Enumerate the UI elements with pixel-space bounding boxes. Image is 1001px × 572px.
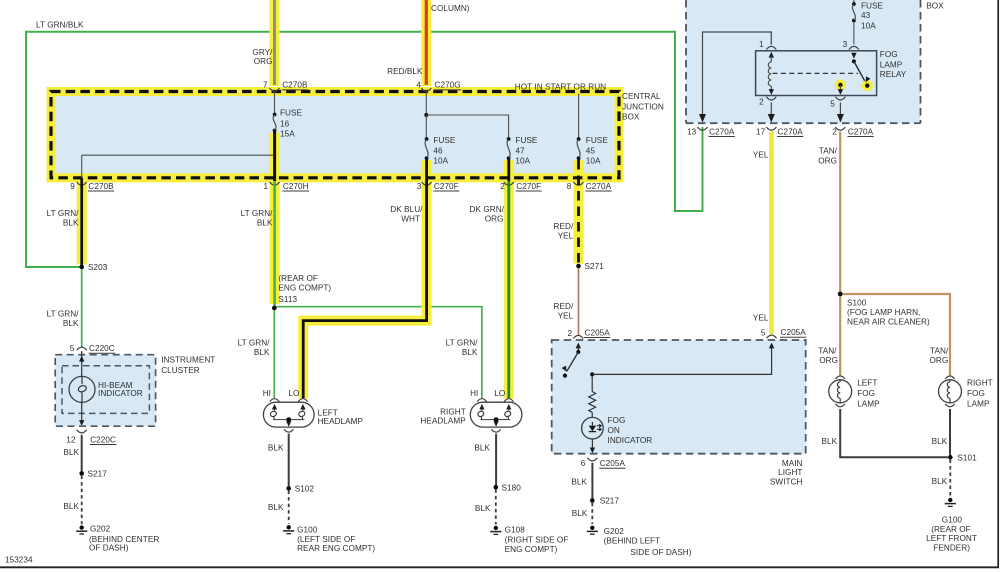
wire S217 to G202 dashed [81,476,83,525]
LED fog on indicator [582,417,604,439]
svg-text:C270F: C270F [434,182,459,191]
svg-text:FOG: FOG [857,389,875,398]
svg-text:5: 5 [761,329,766,338]
connector C205A pin5 [767,335,777,338]
svg-text:G202: G202 [90,525,111,534]
svg-text:C270G: C270G [435,81,461,90]
svg-text:153234: 153234 [5,555,33,564]
svg-text:REAR ENG COMPT): REAR ENG COMPT) [297,544,375,553]
svg-text:RED/BLK: RED/BLK [387,67,423,76]
svg-text:LIGHT: LIGHT [778,468,802,477]
svg-text:YEL: YEL [753,150,769,159]
svg-text:10A: 10A [515,157,530,166]
highlight: DK GRN/ORG path to right headlamp LO [504,160,514,399]
svg-text:HOT IN START OR RUN: HOT IN START OR RUN [515,82,606,91]
svg-text:S203: S203 [88,263,108,272]
wire RED/BLK top [425,0,428,85]
node S113 [272,306,277,311]
svg-text:46: 46 [433,147,443,156]
svg-text:LT GRN/: LT GRN/ [47,310,80,319]
svg-text:LO: LO [494,389,505,398]
svg-text:1: 1 [263,182,268,191]
svg-text:S271: S271 [585,262,605,271]
svg-text:FOG: FOG [967,389,985,398]
svg-text:BLK: BLK [474,444,490,453]
svg-text:RED/: RED/ [554,222,574,231]
node switch output [590,372,594,376]
wire S271 to C205A pin2 [578,268,580,335]
svg-text:ORG: ORG [485,215,504,224]
highlight: RED/BLK wire [421,0,431,86]
wire relay pin1 to C270A pin13 [703,32,772,117]
svg-text:4: 4 [416,81,421,90]
svg-text:BLK: BLK [475,504,491,513]
svg-text:5: 5 [830,100,835,109]
wire DK BLU/WHT C270F pin3 to left headlamp LO [303,160,426,398]
wire S180 to G108 dashed [495,489,497,524]
connector C270G pin4 [421,88,431,91]
connector C270B pin7 [270,88,280,91]
wire junction to fuse47 [426,115,508,137]
wire pin4 to junction [425,91,427,115]
right fog lamp [945,376,954,379]
main light switch box border [552,340,806,454]
ground G100 (left side of rear eng compt) [287,525,291,529]
svg-text:10A: 10A [586,157,601,166]
svg-text:LT GRN/: LT GRN/ [47,209,80,218]
svg-text:SIDE OF DASH): SIDE OF DASH) [630,548,691,557]
svg-text:TAN/: TAN/ [930,346,949,355]
svg-text:BOX: BOX [622,113,640,122]
svg-text:BLK: BLK [64,448,80,457]
svg-text:G202: G202 [604,527,625,536]
svg-text:17: 17 [756,127,766,136]
wire fuse16 to C270H pin1 (thick) [273,132,276,181]
svg-text:2: 2 [832,127,837,136]
wire left fog lamp to S101 [840,409,948,457]
ground G100 (rear of left front fender) [948,498,952,502]
svg-text:TAN/: TAN/ [819,147,838,156]
svg-text:HEADLAMP: HEADLAMP [420,416,466,425]
relay pin2 [766,97,776,100]
wire S101 to G100 dashed [949,460,951,498]
svg-text:BLK: BLK [822,437,838,446]
svg-text:LT GRN/: LT GRN/ [238,339,271,348]
svg-text:JUNCTION: JUNCTION [622,103,664,112]
connector C270A pin17 [766,127,776,130]
svg-text:HI: HI [470,389,478,398]
svg-text:ORG: ORG [818,156,837,165]
svg-text:YEL: YEL [558,312,574,321]
connector C270B pin9 [77,182,87,185]
svg-text:NEAR AIR CLEANER): NEAR AIR CLEANER) [847,318,930,327]
connector C270F pin2 [504,182,514,185]
svg-text:RIGHT: RIGHT [967,379,993,388]
svg-text:RED/: RED/ [554,302,574,311]
svg-text:(LEFT SIDE OF: (LEFT SIDE OF [297,535,355,544]
svg-text:LAMP: LAMP [880,61,903,70]
wire LT GRN/BLK: S203 loop to C270A pin13 [26,32,703,267]
svg-text:LO: LO [288,389,299,398]
svg-text:LT GRN/: LT GRN/ [446,339,479,348]
svg-text:FOG: FOG [880,50,898,59]
svg-text:FUSE: FUSE [280,109,303,118]
svg-text:RIGHT: RIGHT [440,407,466,416]
relay pin5 [835,97,845,100]
svg-text:LAMP: LAMP [857,399,880,408]
svg-text:3: 3 [417,182,422,191]
svg-text:MAIN: MAIN [782,459,803,468]
svg-text:CENTRAL: CENTRAL [622,92,661,101]
resistor (indicator dropping) [591,376,593,392]
svg-text:FUSE: FUSE [433,136,456,145]
svg-text:INDICATOR: INDICATOR [608,436,653,445]
connector C205A pin6 [587,458,597,461]
node relay common [852,59,856,63]
wire top bus to fuse45 [578,94,580,138]
ground G108 (right side of eng compt) [494,526,498,530]
svg-text:43: 43 [861,11,871,20]
wire YEL C270A pin17 to C205A pin5 [769,132,774,335]
svg-text:G100: G100 [942,516,963,525]
relay pin3 [849,46,859,49]
svg-text:S102: S102 [295,485,315,494]
wire S113 to left headlamp HI [273,310,275,398]
svg-text:10A: 10A [861,22,876,31]
svg-text:FOG: FOG [608,416,626,425]
svg-text:ORG: ORG [254,57,273,66]
svg-text:(FOG LAMP HARN,: (FOG LAMP HARN, [847,308,920,317]
wire pin12 to S217 [81,435,83,471]
svg-text:5: 5 [70,344,75,353]
svg-text:BLK: BLK [572,509,588,518]
svg-text:2: 2 [759,98,764,107]
svg-text:HEADLAMP: HEADLAMP [318,417,364,426]
svg-text:LAMP: LAMP [967,399,990,408]
wire S113 to right headlamp HI [274,307,482,399]
wire bulb to pin12 [81,402,83,420]
node junction fuse feed [424,113,428,117]
svg-text:2: 2 [567,329,572,338]
switch arm assembly [576,343,581,349]
svg-text:15A: 15A [280,129,295,138]
svg-text:C270A: C270A [848,127,874,136]
hi-beam indicator bulb [69,376,95,402]
wire branch to pin9 [82,154,274,156]
node S180 [494,485,499,490]
svg-text:9: 9 [70,182,75,191]
svg-text:DK BLU/: DK BLU/ [390,205,423,214]
connector C205A pin2 [573,335,583,338]
relay K: fog lamp relay box [756,51,877,96]
svg-text:G100: G100 [297,526,318,535]
svg-text:(REAR OF: (REAR OF [278,274,318,283]
svg-text:C220C: C220C [90,435,116,444]
wire left headlamp to S102 [288,434,290,487]
svg-text:LEFT: LEFT [857,379,877,388]
fuse F45 10A [577,137,581,141]
node relay NO contact [865,83,869,87]
node relay pin5 contact [838,83,842,87]
svg-text:LEFT FRONT: LEFT FRONT [926,534,977,543]
svg-text:OF DASH): OF DASH) [89,544,129,553]
svg-text:C205A: C205A [585,328,611,337]
svg-text:2: 2 [500,182,505,191]
svg-text:SWITCH: SWITCH [770,478,803,487]
svg-text:S217: S217 [600,497,620,506]
node S217 (switch side) [590,498,595,503]
svg-text:C270F: C270F [516,182,541,191]
instrument cluster outer box [55,355,155,427]
wire switch output to C205A pin5 [592,348,771,374]
svg-text:INSTRUMENT: INSTRUMENT [161,355,215,364]
page bottom border [0,566,999,568]
svg-text:ORG: ORG [819,356,838,365]
svg-text:YEL: YEL [753,314,769,323]
wire S203 to C220C pin5 [81,269,83,347]
node S271 [576,264,581,269]
highlight: pin9 wire to S203 [77,177,87,265]
svg-text:7: 7 [263,81,268,90]
wire C205A pin6 to S217 [591,463,593,499]
wire C270H pin1 to S113 (green core) [273,181,276,306]
svg-text:LT GRN/: LT GRN/ [241,209,274,218]
svg-text:ENG COMPT): ENG COMPT) [278,284,331,293]
wire junction to fuse46 [425,115,427,137]
svg-text:TAN/: TAN/ [818,346,837,355]
fuse F43 10A [853,0,855,3]
highlight: relay contact halo switch [862,80,873,91]
svg-text:YEL: YEL [558,232,574,241]
wire TAN/ORG C270A pin2 to S100 [839,132,841,293]
svg-text:BLK: BLK [932,437,948,446]
svg-text:FUSE: FUSE [861,1,884,10]
wire S100 to left fog lamp [839,296,841,375]
wire relay pin2 to C270A pin17 [770,103,772,118]
svg-text:1: 1 [759,40,764,49]
svg-text:S217: S217 [88,470,108,479]
svg-text:C220C: C220C [89,344,115,353]
svg-text:S180: S180 [502,484,522,493]
ground G202 (behind left side of dash) [590,526,594,530]
svg-text:C205A: C205A [781,328,807,337]
wire pin9 to S203 (blk core on highlight) [80,178,83,265]
svg-text:(REAR OF: (REAR OF [931,525,971,534]
wire RED/YEL dashed C270A pin8 to S271 [577,160,580,264]
svg-text:S113: S113 [278,295,297,304]
connector C270A pin13 [698,127,708,130]
wire S217 to G202 dashed [591,503,593,524]
svg-text:3: 3 [843,40,848,49]
instrument cluster inner box [62,366,149,414]
fuse F16 15A [273,113,277,117]
svg-text:WHT: WHT [401,215,420,224]
left headlamp [263,402,314,427]
svg-text:8: 8 [567,182,572,191]
relay switch blade [854,61,865,80]
wire GRY/ORG top [273,0,276,85]
wire fuse43 to relay pin3 [853,22,855,45]
svg-text:BLK: BLK [254,348,270,357]
svg-text:BLK: BLK [268,444,284,453]
highlight: relay contact halo pin5 [835,79,846,90]
connector C270A pin8 [574,182,584,185]
svg-text:BLK: BLK [63,319,79,328]
svg-text:RELAY: RELAY [880,70,907,79]
highlight: DK BLU/WHT path to left headlamp LO [303,160,426,399]
svg-text:DK GRN/: DK GRN/ [470,205,505,214]
wire right fog lamp to S101 [949,409,951,455]
relay mechanical link dashed [773,72,859,74]
svg-text:45: 45 [586,147,596,156]
svg-text:C270B: C270B [88,182,114,191]
svg-text:BLK: BLK [462,348,478,357]
wire pin5 contact down [839,85,841,89]
connector C270A pin2 [835,127,845,130]
central junction box border [51,92,619,178]
svg-text:C270B: C270B [282,81,308,90]
svg-text:BLK: BLK [63,218,79,227]
svg-text:C270A: C270A [586,182,612,191]
svg-text:ON: ON [608,426,620,435]
svg-text:16: 16 [280,119,290,128]
wire S100 to right fog lamp [843,294,951,376]
svg-text:LEFT: LEFT [318,408,338,417]
svg-text:(RIGHT SIDE OF: (RIGHT SIDE OF [505,535,569,544]
svg-text:(BEHIND LEFT: (BEHIND LEFT [604,536,661,545]
central junction box fill [51,92,619,178]
node S101 [948,455,953,460]
page right border [997,0,999,568]
svg-text:LT GRN/BLK: LT GRN/BLK [36,21,84,30]
svg-text:S101: S101 [957,454,977,463]
svg-text:BLK: BLK [571,478,587,487]
highlight: central junction box border [51,92,619,178]
svg-text:ORG: ORG [929,356,948,365]
svg-text:FENDER): FENDER) [933,544,970,553]
wire relay pin5 to C270A pin2 [839,103,841,118]
left fog lamp [836,376,845,379]
wire DK GRN/ORG C270F pin2 to right headlamp LO [507,160,510,182]
highlight: GRY/ORG wire [270,0,280,86]
wire pin7 to fuse16 [274,91,276,113]
svg-text:BLK: BLK [268,503,284,512]
relay coil [769,52,774,58]
svg-text:BOX: BOX [926,2,944,11]
svg-text:COLUMN): COLUMN) [431,4,470,13]
svg-text:HI: HI [263,389,271,398]
relay pin1 [766,46,776,49]
svg-text:GRY/: GRY/ [252,48,273,57]
node S217 (cluster side) [79,471,84,476]
node S100 [838,292,843,297]
svg-text:C270A: C270A [709,127,735,136]
connector C220C pin5 [77,347,87,350]
connector C270F pin3 [422,182,432,185]
node S102 [286,486,291,491]
wire LED to C205A pin6 [591,422,593,426]
svg-text:FUSE: FUSE [586,136,609,145]
svg-text:G108: G108 [505,525,526,534]
highlight: RED/YEL wire to S271 [574,160,584,264]
svg-text:C205A: C205A [600,459,626,468]
svg-text:13: 13 [687,127,697,136]
svg-text:10A: 10A [433,157,448,166]
battery junction box border [685,0,687,123]
instrument cluster box fill [55,355,155,427]
svg-text:ENG COMPT): ENG COMPT) [505,545,558,554]
svg-text:CLUSTER: CLUSTER [161,366,200,375]
svg-text:FUSE: FUSE [515,136,538,145]
svg-text:BLK: BLK [932,477,948,486]
svg-text:12: 12 [66,435,76,444]
wire S102 to G100 dashed [288,491,290,524]
svg-text:C270H: C270H [283,182,309,191]
main light switch box fill [552,340,806,454]
wire pin5 into cluster [81,351,83,377]
svg-text:S100: S100 [847,298,867,307]
node S203 [79,265,84,270]
wire right headlamp to S180 [495,434,497,485]
svg-text:47: 47 [515,147,525,156]
svg-text:C270A: C270A [778,127,804,136]
svg-text:BLK: BLK [257,218,273,227]
fuse F47 10A [507,137,511,141]
connector C270H pin1 [270,182,280,185]
svg-text:INDICATOR: INDICATOR [98,389,143,398]
fuse F46 10A [425,137,429,141]
svg-text:BLK: BLK [63,502,79,511]
right headlamp [470,402,522,427]
battery junction box fill [686,0,921,123]
connector C220C pin12 [77,430,87,433]
ground G202 (behind center of dash) [80,525,84,529]
highlight: fuse16 output to S113 [270,133,280,304]
svg-text:6: 6 [581,459,586,468]
